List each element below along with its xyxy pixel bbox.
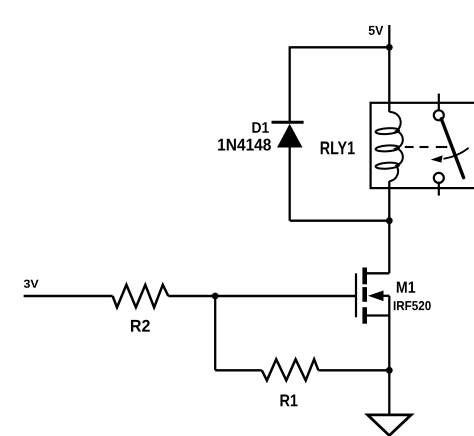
wire R2 to gate xyxy=(168,295,356,298)
svg-text:M1: M1 xyxy=(396,279,416,297)
node junction dot source node xyxy=(386,367,393,374)
transistor M1 body lead with arrowhead xyxy=(376,295,389,297)
node junction dot at 5V rail xyxy=(386,44,393,51)
wire source node to ground xyxy=(388,370,390,415)
svg-text:IRF520: IRF520 xyxy=(393,298,431,313)
transistor M1 gate line xyxy=(355,273,357,317)
relay switch top pin stub xyxy=(438,94,440,111)
transistor M1 drain lead xyxy=(367,272,389,274)
relay switch bottom contact circle xyxy=(434,173,444,183)
wire to R1 left xyxy=(215,369,262,371)
relay switch arrow arc xyxy=(444,148,469,159)
ground symbol xyxy=(368,415,412,436)
svg-text:D1: D1 xyxy=(252,120,270,137)
relay dashed actuation line xyxy=(405,146,414,148)
resistor R1 xyxy=(262,359,319,380)
svg-text:R1: R1 xyxy=(279,391,298,410)
relay coil scallops xyxy=(389,112,403,181)
wire top horizontal (5V node to diode branch) xyxy=(290,46,390,48)
wire 3V input xyxy=(24,295,113,298)
svg-text:R2: R2 xyxy=(130,317,151,336)
node junction dot gate node xyxy=(212,293,219,300)
diode D1 triangle xyxy=(277,124,303,148)
transistor M1 channel bar bottom xyxy=(362,307,367,324)
wire body/source vertical xyxy=(388,296,390,371)
wire diode branch left vertical upper xyxy=(289,46,291,123)
svg-text:RLY1: RLY1 xyxy=(320,137,355,158)
transistor M1 channel bar top xyxy=(362,268,367,285)
relay RLY1 box xyxy=(371,103,474,188)
relay coil loop ellipse 3 xyxy=(375,162,399,169)
wire R1 right to source node xyxy=(318,369,389,371)
svg-text:5V: 5V xyxy=(368,23,383,38)
svg-text:3V: 3V xyxy=(23,278,38,291)
wire diode branch left vertical lower xyxy=(289,147,291,221)
relay switch arrowhead xyxy=(431,155,443,162)
relay switch bottom pin stub xyxy=(438,183,440,196)
transistor M1 source lead xyxy=(367,314,389,316)
svg-text:1N4148: 1N4148 xyxy=(217,135,271,154)
relay switch blade xyxy=(441,119,463,178)
wire bottom horizontal of diode loop xyxy=(290,220,390,222)
relay coil loop ellipse 2 xyxy=(375,145,399,152)
resistor R2 xyxy=(113,285,169,308)
relay switch top contact circle xyxy=(434,110,444,120)
transistor M1 channel bar middle xyxy=(362,287,367,302)
relay coil loop ellipse 1 xyxy=(375,127,399,134)
wire gate node down to R1 row xyxy=(214,296,216,370)
diode D1 cathode bar xyxy=(272,121,304,124)
wire coil bottom to drain node xyxy=(388,181,390,273)
node junction dot drain node xyxy=(386,217,393,224)
wire 5V vertical down to coil xyxy=(388,25,390,112)
